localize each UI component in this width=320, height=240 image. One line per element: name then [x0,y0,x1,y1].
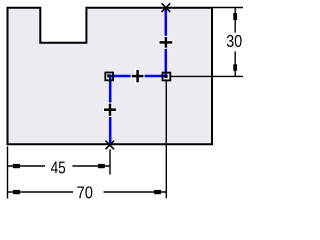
midpoint marker plus on horizontal [131,69,145,84]
extension line left edge (for 45 and 70 dims) [7,146,9,198]
extension line down from lower sketch point (for 45 dim) [109,149,111,174]
extension line right of corner node (for 30 dim) [171,75,243,77]
dimension text 45 [51,162,65,174]
sketch line vertical 1 (blue) [165,8,168,76]
midpoint marker plus on vertical 2 [103,103,117,117]
sketch line horizontal (blue) [110,75,166,78]
dimension text 70 [77,186,92,198]
extension line down from corner node (for 70 dim) [165,81,167,198]
dimension text 30 [227,35,242,47]
endpoint square marker left [105,73,113,81]
dimension line 45 (horizontal) [8,164,110,168]
sheet background [0,0,247,207]
dimension line 30 (vertical) [233,8,237,76]
midpoint marker plus on vertical 1 [158,36,173,49]
extension line top (for 30 dim) [212,7,243,9]
coincident X marker top [162,3,171,12]
endpoint square marker right [163,73,171,81]
coincident X marker bottom [106,141,115,150]
sketch line vertical 2 (blue) [109,76,112,144]
part outline (notched plate) [8,8,213,145]
dimension line 70 (horizontal) [8,190,166,194]
